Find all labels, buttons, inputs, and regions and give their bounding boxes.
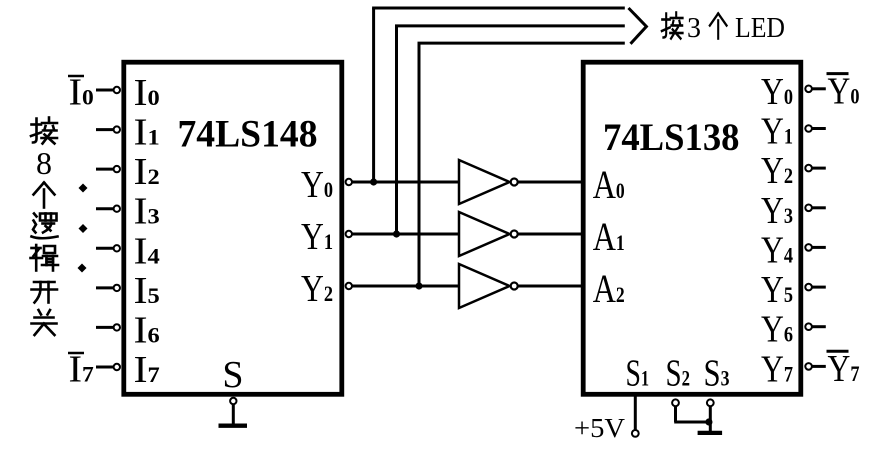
pin I7 stub (U1 left) <box>96 364 120 370</box>
pin Y6 circle (U2 right) <box>805 323 812 330</box>
pin Y7 stub wire <box>812 365 826 368</box>
pin Y1 stub wire <box>812 127 826 130</box>
junction node S2-S3 <box>705 418 712 425</box>
pin Y1 circle (U1 right) <box>346 231 352 237</box>
pin Y4 circle (U2 right) <box>805 244 812 251</box>
junction node Y1 <box>393 230 400 237</box>
pin Y5 circle (U2 right) <box>805 284 812 291</box>
wire Y0 vertical to LED bus <box>372 8 375 182</box>
svg-text:+5V: +5V <box>574 413 626 443</box>
pin Y0 circle (U1 right) <box>346 179 352 185</box>
pin S2 bubble <box>672 399 679 406</box>
svg-text:S: S <box>222 354 243 396</box>
pin S bubble <box>230 398 236 404</box>
junction node Y2 <box>415 282 422 289</box>
wire Y1 to inverter <box>352 233 459 236</box>
pin I0 stub (U1 left) <box>96 87 120 93</box>
pin Y0 stub wire <box>812 87 826 90</box>
node Y0-bar external label <box>827 70 860 112</box>
encoder U1 74LS148 body <box>124 62 342 394</box>
wire S2 down <box>674 406 677 422</box>
pin I5 stub (U1 left) <box>96 285 120 291</box>
svg-text:74LS138: 74LS138 <box>603 116 740 159</box>
wire inverter G2 output to A1 <box>518 233 581 236</box>
svg-text:LED: LED <box>735 13 785 44</box>
pin I1 stub (U1 left) <box>96 126 120 132</box>
junction node Y0 <box>370 178 377 185</box>
pin I3 stub (U1 left) <box>96 206 120 212</box>
pin S3 bubble <box>707 399 714 406</box>
ellipsis diamond 1 <box>79 184 88 193</box>
wire Y1 vertical to LED bus <box>395 26 398 234</box>
wire Y2 to inverter <box>352 285 459 288</box>
pin Y6 stub wire <box>812 325 826 328</box>
pin Y1 circle (U2 right) <box>805 125 812 132</box>
pin I6 stub (U1 left) <box>96 324 120 330</box>
pin I4 stub (U1 left) <box>96 245 120 251</box>
note: connect 3 LEDs <box>662 13 785 45</box>
wire inverter G1 output to A0 <box>518 181 581 184</box>
wire Y1 horizontal LED bus <box>395 24 625 27</box>
wire S3 to ground <box>709 406 712 431</box>
inverter G1 triangle <box>459 160 510 204</box>
wire Y2 vertical to LED bus <box>418 43 421 286</box>
node I0-bar external label <box>68 72 94 114</box>
wire Y0 horizontal LED bus <box>372 7 625 10</box>
pin Y0 circle (U2 right) <box>805 86 812 93</box>
ellipsis diamond 3 <box>78 264 87 273</box>
wire S1 to +5V <box>634 397 637 431</box>
ellipsis diamond 2 <box>79 224 88 233</box>
node +5V terminal circle <box>632 430 639 437</box>
decoder U2 74LS138 body <box>583 62 801 394</box>
ground (U2 S3 pin) <box>698 431 723 435</box>
node Y7-bar external label <box>827 348 860 390</box>
pin Y4 stub wire <box>812 246 826 249</box>
pin I2 stub (U1 left) <box>96 166 120 172</box>
arrow chevron to LEDs <box>629 8 647 44</box>
inverter G1 bubble <box>511 179 518 186</box>
pin Y2 circle (U1 right) <box>346 283 352 289</box>
wire S2 to S3 <box>674 421 710 424</box>
pin Y2 stub wire <box>812 167 826 170</box>
svg-text:8: 8 <box>36 145 52 181</box>
vertical note: connect 8 logic switches <box>31 118 59 336</box>
wire Y2 horizontal LED bus <box>418 42 625 45</box>
pin Y2 circle (U2 right) <box>805 165 812 172</box>
svg-text:3: 3 <box>687 13 701 44</box>
wire Y0 to inverter <box>352 181 459 184</box>
inverter G3 bubble <box>511 283 518 290</box>
inverter G3 triangle <box>459 264 510 308</box>
ground (U1 S pin) <box>219 424 248 428</box>
node I7-bar external label <box>68 349 94 391</box>
pin Y5 stub wire <box>812 286 826 289</box>
inverter G2 triangle <box>459 212 510 256</box>
pin Y3 circle (U2 right) <box>805 205 812 212</box>
pin Y7 circle (U2 right) <box>805 363 812 370</box>
wire S to ground <box>232 404 235 426</box>
pin Y3 stub wire <box>812 206 826 209</box>
svg-text:74LS148: 74LS148 <box>178 113 318 156</box>
inverter G2 bubble <box>511 231 518 238</box>
wire inverter G3 output to A2 <box>518 285 581 288</box>
